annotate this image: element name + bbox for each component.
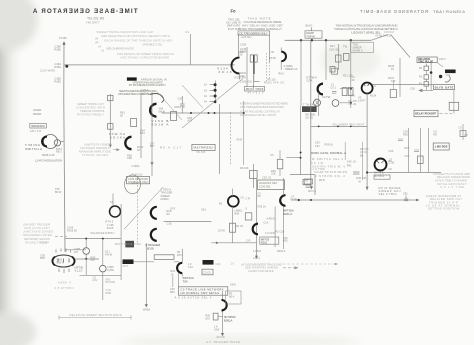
svg-text:C05 W: C05 W [40,242,48,245]
node bus junctions [300,39,352,41]
svg-text:R166 2.2K: R166 2.2K [42,153,55,157]
output note block [426,194,462,211]
svg-text:C0 A: C0 A [307,79,313,83]
terminal labels [204,84,207,104]
wire: leader diagonal from notes [156,91,182,121]
resistor R26 box [342,88,347,96]
svg-text:B0A: B0A [235,212,240,215]
tube V193A heavy arc [318,84,323,95]
wire: rail x253 lower [252,164,254,188]
resistor R106 box [390,90,396,98]
wire: bottom return line [80,275,122,277]
svg-text:BLKG: BLKG [306,23,313,27]
svg-text:0 STR0W 00L A: 0 STR0W 00L A [315,174,345,178]
svg-text:DLYD GATE: DLYD GATE [435,86,454,89]
capacitor C40 marks [353,172,360,174]
svg-text:NE-2: NE-2 [56,150,62,153]
box MULT TRACE DELAY label [192,144,215,150]
resistor box on V24 rail [230,223,236,232]
resistor stack box c [424,82,429,86]
wire: V105 bottom pins [59,269,69,274]
label T05 B [55,187,62,194]
svg-text:A0 0 W: A0 0 W [216,336,225,339]
wire: dashed continuation [269,62,271,80]
tube V173B heavy arc [253,224,258,235]
svg-text:R162: R162 [55,79,62,83]
triode pins inside V105 [58,259,69,263]
wire: rail x428 [427,128,429,173]
label R65 [175,105,186,109]
wire: rail x228 [222,291,224,334]
svg-text:A 0. TRIGGER TRACE: A 0. TRIGGER TRACE [206,340,240,344]
resistor box mid cluster [418,156,424,164]
shield ellipse [125,175,141,194]
wire: rail through delay pickoff [219,104,221,174]
label V65 right [224,315,236,322]
wire: rail x363 [362,142,364,180]
label under V45 [145,243,160,250]
wire: dashed rail x137 [137,178,139,243]
tube V135 heavy circle [110,206,121,217]
wire: bottom wire of delay cluster [419,89,433,92]
svg-text:B0 W: B0 W [55,190,62,194]
wire hook curve [445,76,450,82]
svg-text:NORM X: NORM X [353,50,363,53]
svg-text:MULTI TRACE SYNC: MULTI TRACE SYNC [115,242,141,246]
svg-text:L8/2: L8/2 [93,279,98,282]
svg-text:6.3V A: 6.3V A [57,261,64,264]
svg-text:C0 TW: C0 TW [322,95,331,99]
svg-text:C92: C92 [403,192,408,195]
label above V105 [40,253,45,260]
tube V45A heavy arc [151,207,157,219]
label under V55 [183,276,194,283]
wire: rail from DC box down [269,35,271,62]
label V173A [291,195,298,201]
tube V214 envelope heavy circle [362,83,373,94]
labels near V193 [331,75,356,97]
resistor stack box b [424,75,429,79]
wire: V214 cathode rail down [366,94,368,191]
box DELAYED GATE OUT label [434,85,455,90]
svg-text:C0 R0: C0 R0 [218,230,226,233]
box DELAY PICKOFF label [414,110,438,116]
svg-text:R03: R03 [405,146,410,150]
svg-text:R0 C0W: R0 C0W [106,281,116,284]
label R106 [388,64,396,83]
svg-text:R161A: R161A [141,91,149,95]
svg-text:R9 10K: R9 10K [240,166,249,170]
svg-text:R02: R02 [403,133,408,137]
svg-text:115V WIRE: 115V WIRE [40,69,55,73]
svg-text:C1A: C1A [188,266,193,269]
svg-text:SN 346: SN 346 [196,151,206,154]
svg-text:WITH TRIGGER SOURCE SWITCH SET: WITH TRIGGER SOURCE SWITCH SET [240,105,284,109]
svg-text:TP160: TP160 [59,36,67,40]
wire: V160 cathode rail [151,92,153,176]
node arrow x146 [145,304,148,307]
label left of V65 [205,315,225,339]
wire: dash leader to note left [55,236,67,238]
svg-text:C0: C0 [389,167,393,171]
node arrow x228 bottom [221,333,224,336]
wire: rail x408 [408,128,410,173]
wire: right rail stub [229,112,231,165]
capacitor C06 marks mid cluster [398,139,419,152]
svg-text:NO NORMAL SWP DETAIL: NO NORMAL SWP DETAIL [181,291,221,295]
svg-text:470: 470 [91,259,96,262]
wire: tick above CHOP box [311,27,313,40]
svg-text:SEL SWEEP TRIG INPUT: SEL SWEEP TRIG INPUT [332,123,364,126]
label at neon [56,148,62,154]
wire: leader diagonal to trigger block [182,79,243,129]
svg-text:HOLDOFF NET: HOLDOFF NET [259,181,278,185]
gate rows [311,157,347,178]
svg-text:C0A: C0A [201,208,206,211]
connector bar right dark [203,260,214,265]
svg-text:TYPICAL VALUES: TYPICAL VALUES [82,153,108,157]
top small labels tile11 [305,179,362,193]
label C160 R160 [55,45,62,84]
svg-text:6DJ8: 6DJ8 [147,246,154,250]
svg-text:MULT TRACE DLY: MULT TRACE DLY [194,146,214,150]
footnote black bar [127,77,137,80]
svg-text:CHOP: CHOP [306,31,314,35]
svg-text:C19 .001: C19 .001 [329,47,340,51]
tube V160B heavy arc [150,104,156,117]
svg-text:C1B: C1B [167,222,172,225]
box DELAYED TRIG label [417,57,437,63]
svg-text:C R: C R [246,239,251,242]
wire: upper horizontal bus [285,39,371,41]
svg-text:4A: 4A [204,101,207,104]
mid labels column [315,140,334,147]
node arrow on bus [216,242,219,245]
wire: cathode line V105 [75,258,99,260]
svg-text:R0R0 GATE NORMAL A: R0R0 GATE NORMAL A [311,151,346,155]
svg-text:C06: C06 [389,149,394,153]
wire: V183A leads [280,48,282,71]
svg-text:NORM: NORM [161,197,169,201]
svg-text:SWP LENGTH: SWP LENGTH [31,124,45,128]
node arrow cathode rail [151,162,154,165]
wire: left rail x256 [256,178,258,256]
resistor R17 box [336,55,342,62]
wire: rail x182 [181,249,183,277]
svg-text:10K: 10K [238,53,243,57]
wire: rail x163 [172,276,174,287]
label V24 [201,196,244,232]
svg-text:C1 W: C1 W [291,198,298,201]
svg-text:R0 C0: R0 C0 [236,225,244,228]
svg-text:R05: R05 [283,239,288,242]
svg-text:ADJ 1%: ADJ 1% [30,129,42,133]
resistor box left edge [245,213,252,220]
tube V173A heavy arc [280,195,285,206]
wire: V24 cathode rail [232,207,234,243]
svg-text:C160 SEL: C160 SEL [259,184,271,188]
small box V252 top label [374,175,390,179]
svg-text:1K: 1K [391,67,394,71]
svg-text:W0 0 A: W0 0 A [308,190,316,193]
svg-text:R0: R0 [434,133,438,137]
pickoff dark label box [302,106,317,112]
svg-text:R41: R41 [347,163,352,167]
node dots anode line [85,238,104,240]
wire spur bus to V160A [61,141,64,143]
svg-text:4.7K: 4.7K [180,105,186,109]
right-bottom of center labels [347,159,367,179]
resistor box on x454 [449,102,459,110]
box ext horiz label [178,287,227,295]
svg-text:+225 ADJ: +225 ADJ [241,36,253,39]
resistor R35 box [277,159,283,169]
label R4 C4 [349,99,358,106]
resistor R151 box [108,124,113,130]
wire: main horizontal bus to V134 grid [64,64,235,66]
svg-text:BY TROUBLESHOOTING CHART 1: BY TROUBLESHOOTING CHART 1 [129,83,166,87]
svg-text:C68: C68 [127,156,132,160]
svg-text:A 0.15 AUTCH SEL X: A 0.15 AUTCH SEL X [175,296,212,300]
lower-left faint note block [23,222,53,244]
box CHOP TOP label [305,31,322,38]
svg-text:C1 C0: C1 C0 [204,271,212,274]
svg-text:A R0/1A: A R0/1A [267,217,277,220]
box C90 network [202,269,213,275]
svg-text:R39 1K: R39 1K [325,142,334,146]
node dots on trigger line [318,126,352,128]
wire: leader from box corner [437,63,443,67]
svg-text:R165 10K: R165 10K [132,174,143,177]
svg-text:C30: C30 [315,140,320,144]
wire: line between bars [134,261,180,263]
box holdoff network [258,180,285,190]
capacitor C25 marks [332,92,336,94]
pin label column [95,37,105,53]
resistor R18 box [344,54,350,61]
wire: dash leader arrow [335,263,338,266]
tube V55 heavy arc [177,263,182,273]
svg-text:C1K: C1K [216,263,221,266]
labels left rail column [246,193,289,260]
svg-text:C0 TRACE LINE NETWORK: C0 TRACE LINE NETWORK [181,288,224,292]
bottom rows near V252 [379,186,402,196]
label V135 [106,220,115,231]
resistor R150 box [108,95,113,100]
wire: sawtooth rail upper [283,178,285,195]
svg-text:0.5 ATTWIN: 0.5 ATTWIN [55,286,74,290]
svg-text:R05: R05 [40,256,45,260]
labels below [93,277,116,295]
wire: rail x283 mid [283,207,285,250]
resistor R9 box [250,170,258,178]
svg-text:R05: R05 [170,291,175,294]
label V160B 6DJ8 [152,119,170,127]
svg-text:C03: C03 [405,154,410,158]
wire: V214 pin ticks [364,84,370,86]
svg-text:R161: R161 [55,65,62,69]
label TIMING SWITCH A [25,143,42,151]
wire: tick right of box [384,31,394,33]
svg-text:SWITCH A: SWITCH A [25,147,42,151]
svg-text:1 W: 1 W [269,50,274,54]
wire: rail x393 [392,80,394,90]
label 6FW-5A [109,132,125,140]
labels left of V252 [360,147,369,157]
svg-text:W SWITCH SEL 0: W SWITCH SEL 0 [312,157,344,161]
svg-text:R0 A: R0 A [279,73,285,76]
wire: delayed sweep output line [291,199,417,201]
svg-text:6AU6: 6AU6 [107,226,114,230]
svg-text:R0 B: R0 B [319,179,325,182]
wire: dashed rail C6 [265,53,267,82]
tube V24 heavy circle [228,196,239,207]
label in holdoff box [259,181,278,188]
labels right of V45 [167,207,176,225]
note paragraph faint [96,30,174,59]
svg-text:12AT7: 12AT7 [358,99,366,103]
svg-text:VARIABLE CTRL: VARIABLE CTRL [142,43,162,47]
wire: anode supply line [65,238,121,240]
svg-text:EACH RANGE OF THE TIME/CM SWIT: EACH RANGE OF THE TIME/CM SWITCH AND [104,38,173,42]
left-mid faint note [240,101,288,117]
box C165 network [127,176,150,183]
svg-text:0.15 A: 0.15 A [253,257,260,260]
svg-text:C0 1: C0 1 [331,85,337,89]
resistor box on x228 [213,313,218,320]
label under dark box [305,112,315,119]
svg-text:R202 A: R202 A [277,250,286,253]
capacitor C63 leads [180,96,185,113]
svg-text:TOP W: TOP W [306,34,315,38]
label V193A [306,75,331,99]
neon lamp B167 [54,140,60,146]
node TP160 arrow terminal [62,42,65,45]
neon B191 circle [100,265,107,272]
wire: rail x121 [120,204,122,280]
faint note 2 [79,142,112,157]
svg-text:+R: +R [95,41,99,45]
svg-text:R0: R0 [352,94,356,98]
svg-text:C40 .01: C40 .01 [347,159,357,163]
resistor R161 box [131,119,137,127]
svg-text:R201: R201 [261,241,268,245]
svg-text:C31: C31 [315,144,320,148]
svg-text:R40 33K: R40 33K [356,176,366,180]
svg-text:1 0: 1 0 [231,263,235,266]
wire: gate junction [286,158,315,195]
label left rail [120,88,149,117]
trig note rows [161,187,173,201]
resistor R181 box [250,55,257,62]
bottom faint rows center [245,266,278,273]
svg-text:L2 AFC-MODULATION: L2 AFC-MODULATION [35,158,62,162]
svg-text:W0 5: W0 5 [177,254,183,257]
svg-text:C0L0R TR STR 0W 0W: C0L0R TR STR 0W 0W [314,170,347,174]
svg-text:V,L,1A: V,L,1A [75,269,83,273]
wire: V160 left rail [140,94,142,159]
wire: vertical into C165 box [137,176,139,178]
switch box SWP LEN [30,123,47,128]
node arrow on timing rail [109,145,112,148]
svg-text:1K5: 1K5 [205,317,210,320]
potentiometer R140 dark bar [253,55,255,74]
label C160A R160A [33,108,41,116]
faint bottom rows [55,281,74,291]
svg-text:470: 470 [188,119,193,123]
box on center rail [303,179,311,184]
wire: V135 top lead [112,194,114,207]
label cathode parts [127,128,155,168]
svg-text:R64: R64 [140,131,145,135]
label right of B191 [107,266,114,272]
node dark dot [439,75,442,78]
resistor R66 box on plate line [171,112,177,121]
wire: V134 cathode lead down [239,74,241,80]
label in DELAYED TRIG box [418,58,433,63]
svg-text:R160A: R160A [33,112,41,116]
svg-text:R0 110: R0 110 [268,78,276,81]
pulse transformer dark bar [445,70,456,74]
svg-text:SEE CALIBRATION NOTE: SEE CALIBRATION NOTE [106,47,134,51]
svg-text:TYPE 547: TYPE 547 [86,21,100,25]
svg-text:470 W: 470 W [105,253,113,256]
wire: rail x275 [274,207,276,248]
wire: pin bus x215 [214,81,216,104]
label left of B190 [74,248,81,254]
wire: timing rail [109,94,111,147]
svg-text:DELAY PICKOFF: DELAY PICKOFF [415,113,436,116]
svg-text:3A: 3A [204,95,207,98]
svg-text:C181 .001: C181 .001 [240,80,253,84]
wire: diagonal to R106 [391,34,411,57]
svg-text:C4 .02: C4 .02 [349,102,357,106]
svg-text:C1A: C1A [264,222,269,225]
svg-text:R05 1K: R05 1K [258,205,267,208]
node junction on bus [65,65,68,68]
wire: dashed leader right bottom [283,263,334,265]
label under V173A [283,209,294,216]
svg-text:C01: C01 [446,74,451,77]
footnote rows [118,78,167,96]
tube V105 envelope oval [52,255,75,267]
svg-text:TRIG PULSE: TRIG PULSE [418,60,433,63]
label V55 right [177,251,193,269]
svg-text:DC TRIGGERED ONLY: DC TRIGGERED ONLY [240,31,268,35]
wire: rail x420 [419,128,421,173]
svg-text:C05: C05 [410,88,415,91]
node dot on x86 [85,258,87,260]
label V134B [217,66,233,74]
resistor R22 box [330,67,335,73]
svg-text:1 MS RGE: 1 MS RGE [435,145,448,149]
svg-text:ARE SELECTED FOR OPTIMUM LINEA: ARE SELECTED FOR OPTIMUM LINEARITY WITH [101,34,170,38]
wire: V105 top pins [56,249,71,253]
svg-text:ROTATES FREELY: ROTATES FREELY [77,113,104,117]
bottom-right faint block [433,172,470,189]
resistor stack labels [419,67,423,86]
svg-text:C63: C63 [178,97,183,101]
label V252 [374,170,384,178]
wire: lower bus y243 [211,242,256,244]
tube V160A envelope [44,135,58,149]
svg-text:AND TIMING CAPACITOR BOARD: AND TIMING CAPACITOR BOARD [120,55,170,59]
svg-text:R1 C1B: R1 C1B [276,231,285,234]
wire: V24 top lead [232,189,234,197]
wire: rail x103 [102,240,104,300]
wire: rail x190 pickoff [189,34,191,65]
svg-text:T 7A C4A: T 7A C4A [303,102,315,106]
